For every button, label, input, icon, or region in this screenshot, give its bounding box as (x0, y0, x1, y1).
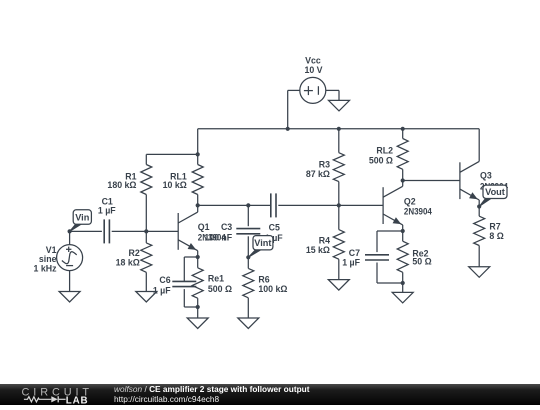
svg-text:Q2: Q2 (404, 196, 416, 206)
node Q2 emitter (401, 229, 405, 233)
label C6 1uF (153, 275, 171, 295)
label R1 180k (107, 171, 136, 190)
wire Q2 collector to Q3 base (403, 180, 460, 182)
svg-text:Vout: Vout (485, 187, 505, 197)
ground for R4 (328, 280, 349, 291)
svg-text:10 V: 10 V (304, 65, 322, 75)
svg-text:1 µF: 1 µF (153, 285, 171, 295)
node rail junction (196, 152, 200, 156)
svg-text:1 kHz: 1 kHz (34, 264, 58, 274)
node R3 R4 junction (337, 203, 341, 207)
wire base Q1 (146, 230, 178, 232)
wire C5 to Q2 base (278, 204, 383, 206)
capacitor C3 (236, 229, 260, 234)
svg-text:500 Ω: 500 Ω (208, 284, 232, 294)
ground for R7 (469, 267, 490, 278)
svg-text:500 Ω: 500 Ω (369, 155, 393, 165)
resistor R6 (243, 257, 254, 318)
resistor Re2 (397, 231, 408, 283)
capacitor C5 (271, 193, 276, 217)
resistor R7 (474, 207, 485, 267)
footer bar (0, 384, 540, 405)
resistor R4 (333, 205, 344, 279)
voltage source V1 sine (57, 231, 83, 291)
svg-text:C6: C6 (159, 275, 170, 285)
wire C1 to base node (112, 230, 147, 232)
wire collector Q1 to C5 (198, 204, 270, 206)
wire C3 to R6 (247, 236, 249, 257)
ground for V1 (59, 292, 80, 303)
svg-text:18 kΩ: 18 kΩ (116, 257, 140, 267)
ground for Vcc (329, 100, 350, 111)
CircuitLab logo (0, 384, 110, 405)
node Vint (246, 255, 250, 259)
label box Vin (70, 210, 92, 232)
svg-text:Re1: Re1 (208, 274, 224, 284)
label Re1 500 (208, 274, 232, 294)
label Q1 2N3904 (198, 222, 226, 242)
svg-text:100 nF: 100 nF (204, 233, 232, 243)
svg-text:1 µF: 1 µF (98, 206, 116, 216)
ground for R2 (136, 292, 157, 303)
voltage source Vcc (288, 77, 339, 128)
wire C3 tap (247, 205, 249, 226)
transistor Q2 2N3904 (383, 181, 403, 232)
label R2 18k (116, 248, 140, 267)
label R6 100k (258, 275, 287, 294)
transistor Q3 2N3904 (460, 129, 479, 207)
wire Vin node (70, 230, 102, 232)
capacitor C7 (365, 231, 403, 283)
label box Vout (479, 185, 507, 206)
svg-text:Vin: Vin (75, 212, 90, 222)
label Q3 2N3904 (480, 170, 508, 191)
node R3 top (337, 127, 341, 131)
svg-text:RL2: RL2 (376, 146, 393, 156)
node Q1 emitter (196, 255, 200, 259)
label RL2 500 (369, 146, 393, 166)
node C3 top (246, 203, 250, 207)
resistor RL2 (397, 129, 408, 181)
resistor R1 (141, 154, 152, 231)
node Q2 collector (401, 178, 405, 182)
label RL1 10k (163, 171, 187, 190)
node RL2 top (401, 127, 405, 131)
label V1 sine 1kHz (34, 245, 58, 274)
ground for Re2 (392, 283, 413, 303)
label C1 1uF (98, 196, 116, 215)
svg-text:87 kΩ: 87 kΩ (306, 169, 330, 179)
resistor RL1 (192, 154, 203, 205)
wire Vcc power bus (198, 129, 480, 155)
ground for R6 (238, 318, 259, 329)
svg-text:Vint: Vint (254, 238, 271, 248)
label R3 87k (306, 160, 330, 179)
node Vin (68, 229, 72, 233)
resistor R3 (333, 129, 344, 206)
svg-text:C3: C3 (221, 222, 232, 232)
svg-text:2N3904: 2N3904 (404, 207, 432, 217)
transistor Q1 2N3904 (178, 205, 198, 257)
svg-text:180 kΩ: 180 kΩ (107, 180, 136, 190)
svg-text:Q1: Q1 (198, 222, 210, 232)
svg-text:8 Ω: 8 Ω (489, 231, 503, 241)
node Re1 bottom (196, 305, 200, 309)
svg-text:15 kΩ: 15 kΩ (306, 245, 330, 255)
resistor R2 (141, 231, 152, 291)
label Re2 50 (412, 248, 431, 266)
svg-text:1 µF: 1 µF (342, 257, 360, 267)
node Vcc to bus (286, 127, 290, 131)
svg-text:10 kΩ: 10 kΩ (163, 180, 187, 190)
label C3 100nF (204, 222, 232, 242)
capacitor C1 (104, 219, 109, 243)
svg-text:C5: C5 (269, 222, 280, 232)
resistor Re1 (192, 257, 203, 307)
label R7 8ohm (489, 222, 503, 241)
label Q2 2N3904 (404, 196, 432, 216)
node Vout (477, 204, 481, 208)
svg-text:100 kΩ: 100 kΩ (258, 284, 287, 294)
node base divider (144, 229, 148, 233)
svg-text:Q3: Q3 (480, 170, 492, 180)
ground for Re1 (187, 307, 208, 329)
capacitor C6 (172, 257, 197, 307)
label box Vint (248, 236, 273, 258)
node collector Q1 (196, 203, 200, 207)
label Vcc 10V (304, 56, 322, 75)
svg-text:LAB: LAB (66, 396, 89, 406)
wire rail to R1 (146, 153, 197, 155)
svg-text:C7: C7 (349, 248, 360, 258)
label C5 1uF (265, 222, 283, 243)
svg-text:50 Ω: 50 Ω (412, 256, 431, 266)
label R4 15k (306, 236, 330, 255)
label C7 1uF (342, 248, 360, 268)
node Re2 bottom (401, 281, 405, 285)
